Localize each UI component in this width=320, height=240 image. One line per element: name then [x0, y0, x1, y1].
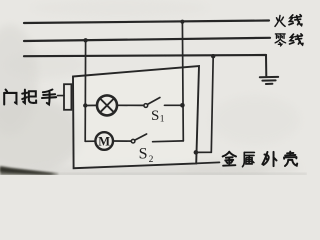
node: earth connection on case: [194, 150, 199, 155]
svg-text:1: 1: [160, 115, 165, 125]
wire: motor to switch S2: [113, 140, 132, 142]
metal case (box): [73, 66, 199, 168]
wire: vertical from neutral line into appliance: [84, 40, 86, 141]
svg-text:2: 2: [149, 155, 154, 165]
label 金属外壳 (metal case): [223, 152, 298, 167]
node: tap on neutral line: [83, 38, 87, 42]
label 火线 (live wire): [275, 15, 302, 27]
label 零线 (neutral wire): [275, 34, 303, 46]
wire: neutral line (零线): [24, 38, 270, 41]
wire: S2 to vertical: [153, 140, 184, 143]
wire: earth tap vertical drop: [211, 56, 213, 152]
svg-text:M: M: [98, 134, 110, 148]
scan line bottom edge: [55, 173, 307, 175]
ground: [260, 77, 278, 84]
scan shadow streak bottom-left: [0, 166, 58, 175]
paper mottling: [0, 0, 300, 180]
wire: leader from 门把手 label: [58, 95, 65, 97]
switch S2: [131, 134, 146, 143]
node: lamp branch junction: [83, 103, 87, 107]
label S2: [139, 145, 154, 165]
node: tap on earth line: [211, 54, 215, 58]
node: tap on live line: [180, 20, 184, 24]
door handle: [64, 84, 71, 110]
lamp EL: [97, 95, 117, 115]
wire: to motor: [85, 140, 95, 142]
paper background: [0, 0, 307, 175]
label 门把手 (door handle): [4, 90, 56, 105]
node: S1 output junction: [180, 103, 185, 108]
wire: S1 to node: [165, 104, 183, 106]
svg-text:S: S: [151, 108, 159, 124]
wire: to lamp: [85, 104, 97, 106]
wire: live line (火线): [24, 21, 269, 24]
wire: earth to case: [196, 151, 211, 153]
wire: earth line: [24, 55, 266, 56]
wire: vertical from live line to switch node: [181, 22, 184, 141]
motor M: [95, 132, 113, 150]
switch S1: [144, 98, 160, 108]
wire: earth line drop to ground: [265, 55, 267, 76]
label M in motor: [98, 134, 110, 148]
wire: lamp to switch S1: [117, 104, 144, 106]
label S1: [151, 108, 165, 125]
svg-text:S: S: [139, 145, 148, 162]
wire: pointer to label 金属外壳: [196, 162, 219, 163]
